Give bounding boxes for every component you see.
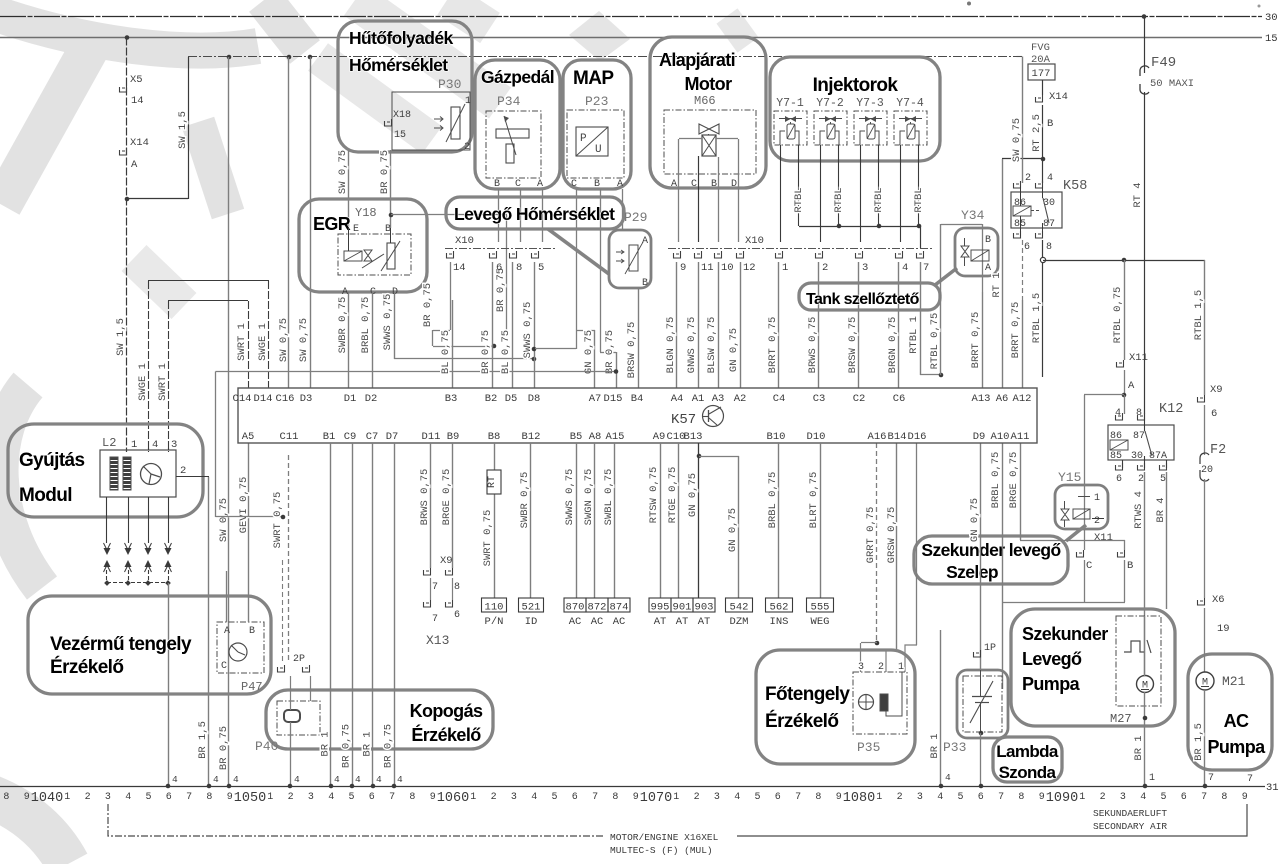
fuse F49 50 MAXI [1144,17,1146,74]
svg-text:5: 5 [957,792,963,803]
wire harness bracket right [737,804,1247,836]
wire M66 A [678,139,680,242]
svg-text:Hűtőfolyadék: Hűtőfolyadék [349,28,454,48]
svg-text:562: 562 [770,602,789,614]
svg-text:BR 0,75: BR 0,75 [604,330,616,374]
svg-text:GN 0,75: GN 0,75 [727,508,739,552]
svg-text:Tank szellőztető: Tank szellőztető [806,291,920,308]
svg-text:RT 1: RT 1 [991,272,1003,297]
svg-text:8: 8 [1221,792,1227,803]
svg-text:DZM: DZM [730,616,749,628]
svg-text:5: 5 [1160,792,1166,803]
svg-text:AC: AC [569,616,582,628]
EGR internal wires [348,228,350,251]
svg-text:995: 995 [651,602,670,614]
svg-text:4: 4 [902,262,908,274]
svg-text:3: 3 [917,792,923,803]
svg-text:RT: RT [487,476,498,488]
svg-text:SEKUNDAERLUFT: SEKUNDAERLUFT [1093,808,1167,819]
wire BLRT 0,75 D10 [820,443,822,598]
svg-text:D14: D14 [254,393,273,405]
svg-text:Főtengely: Főtengely [765,684,850,705]
svg-text:12: 12 [743,262,756,274]
connector X6 pin 19 [1198,598,1205,605]
wire M66 B [718,157,720,242]
svg-text:SWRT 0,75: SWRT 0,75 [272,492,284,549]
svg-text:RT 2,5: RT 2,5 [1031,114,1043,152]
connector X10 pin 10 [715,251,722,258]
wire below X11 [1084,560,1086,602]
wire D16 to P35 pin1 [916,443,918,645]
svg-text:GN 0,75: GN 0,75 [583,330,595,374]
svg-text:4: 4 [1140,792,1146,803]
svg-text:AC: AC [1224,711,1249,731]
junction [125,197,130,202]
node 870 AC [564,598,586,612]
wire BR bus [433,346,494,348]
camshaft sensor callout [28,596,271,694]
svg-text:Kopogás: Kopogás [410,701,483,721]
svg-text:Levegő Hőmérséklet: Levegő Hőmérséklet [454,204,615,224]
wire BR 0,75 to B2 [492,262,494,388]
wire SW 0,75 to D3 [310,57,312,388]
wire to Y15/X11 C [1084,394,1124,396]
svg-text:M66: M66 [694,94,716,108]
svg-text:SW 1,5: SW 1,5 [177,111,189,149]
svg-text:C11: C11 [280,431,299,443]
svg-text:AT: AT [654,616,667,628]
secondary air valve callout [914,536,1068,584]
svg-text:MULTEC-S (F) (MUL): MULTEC-S (F) (MUL) [610,845,713,856]
node RT box [487,470,501,494]
callout tail [1066,525,1086,541]
svg-text:B3: B3 [445,393,458,405]
AC pump callout [1188,654,1272,770]
wire M66 C [698,156,700,242]
svg-text:BRSW 0,75: BRSW 0,75 [847,317,859,374]
wire SW 0,75 to C16 [288,57,290,388]
wire Y15 pin2 stub [1092,518,1104,520]
svg-text:7: 7 [592,792,598,803]
svg-text:7: 7 [998,792,1004,803]
coolant temp sensor callout [338,21,472,152]
svg-text:A13: A13 [972,393,991,405]
wire from P34 C [520,189,522,242]
connector 1P [974,650,981,657]
node 110 P/N [482,598,507,612]
svg-text:11: 11 [701,262,714,274]
svg-text:2: 2 [464,142,470,153]
svg-text:1: 1 [876,792,882,803]
svg-text:SWBR 0,75: SWBR 0,75 [337,297,349,354]
motor crossed box [702,135,716,156]
wire into pump [1144,616,1146,676]
ignition module callout [8,424,203,517]
svg-text:C9: C9 [344,431,357,443]
svg-text:SW 0,75: SW 0,75 [298,318,310,362]
svg-text:5: 5 [754,792,760,803]
svg-text:2: 2 [897,792,903,803]
svg-text:C4: C4 [773,393,786,405]
svg-text:2: 2 [491,792,497,803]
svg-text:Y34: Y34 [961,208,985,223]
svg-text:EGR: EGR [313,214,351,234]
node 521 ID [519,598,544,612]
svg-text:A9: A9 [653,431,666,443]
svg-text:K58: K58 [1063,179,1087,194]
connector X10 pin 5 [532,251,539,258]
svg-text:P47: P47 [241,680,263,694]
svg-text:1050: 1050 [234,791,266,806]
svg-text:9: 9 [430,792,436,803]
svg-text:2: 2 [694,792,700,803]
connector X13 pins 7 6 [424,600,431,607]
pump motor [1137,676,1154,693]
svg-text:RTBL: RTBL [873,187,885,212]
svg-text:4: 4 [531,792,537,803]
svg-text:BR 0,75: BR 0,75 [422,283,434,327]
svg-text:RTBL 1,5: RTBL 1,5 [1031,293,1043,343]
svg-text:D7: D7 [386,431,399,443]
svg-text:1: 1 [1149,773,1155,784]
svg-text:Pumpa: Pumpa [1207,737,1266,757]
junction B13 [697,454,702,459]
svg-text:8: 8 [3,792,9,803]
svg-text:1: 1 [64,792,70,803]
svg-text:U: U [595,144,602,156]
svg-text:19: 19 [1217,623,1230,635]
throttle pedal callout [475,60,560,189]
svg-text:555: 555 [811,602,830,614]
svg-text:P/N: P/N [485,616,504,628]
svg-text:BL 0,75: BL 0,75 [500,330,512,374]
svg-text:B: B [249,626,255,637]
svg-text:SW 0,75: SW 0,75 [1011,118,1023,162]
svg-text:1: 1 [131,439,137,451]
svg-text:6: 6 [1116,474,1122,485]
svg-text:Lambda: Lambda [996,742,1059,761]
wire MAP A to P29 [622,189,624,231]
svg-text:D9: D9 [973,431,986,443]
svg-text:GNWS 0,75: GNWS 0,75 [686,317,698,374]
svg-text:RTGE 0,75: RTGE 0,75 [667,467,679,524]
svg-text:Modul: Modul [19,485,72,506]
svg-text:1: 1 [1079,792,1085,803]
svg-text:9: 9 [633,792,639,803]
svg-text:B14: B14 [888,431,907,443]
wire SWBR 0,75 to D1 [348,292,350,388]
svg-text:2: 2 [1025,173,1031,184]
junction on bus 15 [125,35,130,40]
svg-text:Érzékelő: Érzékelő [50,656,123,678]
svg-text:7: 7 [389,792,395,803]
lambda callout [993,737,1062,782]
wire lambda to ground [979,731,984,736]
pedal sensor P34 box [486,111,541,178]
svg-text:B10: B10 [767,431,786,443]
svg-text:A1: A1 [692,393,705,405]
node 995 AT [649,598,671,612]
wire to P47 A [226,571,228,622]
P/U symbol [576,127,608,156]
connector X10 pin 3 [856,251,863,258]
svg-text:Y15: Y15 [1058,470,1081,485]
svg-text:870: 870 [566,602,585,614]
wire BRBL 0,75 B10 [778,443,780,598]
wire SW 1,5 jog [127,198,188,200]
svg-text:9: 9 [680,262,686,274]
svg-text:15: 15 [1265,33,1278,45]
svg-text:5: 5 [145,792,151,803]
svg-text:15: 15 [394,130,406,141]
svg-text:B8: B8 [488,431,501,443]
svg-text:C7: C7 [366,431,379,443]
svg-text:P40: P40 [255,739,278,754]
svg-text:14: 14 [453,262,466,274]
wire BR 1 to ground [330,443,332,786]
ground dots left [166,784,171,789]
svg-text:SECONDARY AIR: SECONDARY AIR [1093,821,1167,832]
svg-text:50 MAXI: 50 MAXI [1150,78,1194,90]
svg-text:B: B [594,179,600,190]
distributor symbol [141,464,162,485]
wire BRBL 0,75 to D2 [372,292,374,388]
svg-text:1: 1 [898,662,904,673]
svg-text:1: 1 [1094,493,1100,504]
svg-text:Y18: Y18 [355,206,377,220]
svg-text:P29: P29 [624,210,647,225]
svg-text:SWWS 0,75: SWWS 0,75 [564,469,576,526]
svg-text:6: 6 [166,792,172,803]
svg-text:RTBL: RTBL [793,187,805,212]
svg-text:4: 4 [355,774,361,785]
svg-text:4: 4 [172,774,178,785]
connector X14 pin B [1042,80,1044,95]
svg-text:4: 4 [1047,173,1053,184]
svg-text:A: A [224,626,230,637]
svg-text:5: 5 [538,262,544,274]
svg-text:B: B [985,235,991,246]
svg-text:6: 6 [496,262,502,274]
svg-text:1: 1 [782,262,788,274]
ECU K57 box [238,388,1037,443]
svg-text:D11: D11 [422,431,441,443]
svg-text:X11: X11 [1129,352,1148,364]
wire BRSW 0,75 to C2 [858,262,860,388]
svg-text:1040: 1040 [31,791,63,806]
svg-text:85: 85 [1110,451,1122,462]
svg-text:4: 4 [233,774,239,785]
svg-text:8: 8 [815,792,821,803]
wire BRGE 0,75 [452,443,454,568]
junction on BR wire [389,213,394,218]
wire SWBL 0,75 A15 [614,443,616,598]
svg-text:5: 5 [551,792,557,803]
svg-text:B1: B1 [323,431,336,443]
svg-text:3: 3 [511,792,517,803]
svg-text:AC: AC [591,616,604,628]
svg-text:C: C [571,179,577,190]
wire to X6 [1204,479,1206,598]
svg-text:AC: AC [613,616,626,628]
connector X10 pin 2 [816,251,823,258]
svg-text:X14: X14 [1049,91,1068,103]
svg-text:87: 87 [1133,431,1145,442]
svg-text:Gyújtás: Gyújtás [19,450,85,471]
svg-text:BRWS 0,75: BRWS 0,75 [807,317,819,374]
wire BR 0,75 branch [391,214,507,216]
svg-text:7: 7 [1208,773,1214,784]
connector X10 pin 11 [695,251,702,258]
svg-text:A11: A11 [1011,431,1030,443]
wire BR 1,5 to ground [1204,690,1206,786]
relay K12 [1124,395,1126,414]
svg-text:3: 3 [308,792,314,803]
svg-text:4: 4 [294,774,300,785]
svg-text:X6: X6 [1212,594,1225,606]
svg-text:SWWS 0,75: SWWS 0,75 [382,294,394,351]
tank vent valve Y34 [982,224,984,292]
svg-text:2: 2 [822,262,828,274]
svg-text:BL 0,75: BL 0,75 [440,330,452,374]
svg-text:RTBL 1: RTBL 1 [908,316,920,354]
svg-text:1: 1 [465,96,471,107]
svg-text:A: A [131,159,138,171]
EGR valve Y18 box [338,234,411,275]
svg-text:4: 4 [125,792,131,803]
connector X18 pin 15 [385,119,392,126]
svg-text:L2: L2 [102,436,116,450]
svg-text:3: 3 [171,439,177,451]
svg-text:D2: D2 [365,393,378,405]
svg-text:SWRT 1: SWRT 1 [157,363,169,401]
svg-text:1P: 1P [984,643,996,654]
svg-text:BR 0,75: BR 0,75 [480,330,492,374]
wire BR 1 shield [940,630,942,786]
wire SWWS 0,75 to D8 [534,262,536,388]
svg-text:E: E [353,224,359,235]
wire supply rail y57 [188,56,1023,58]
svg-text:INS: INS [770,616,789,628]
node 555 WEG [807,598,834,612]
wire GN 0,75 to A2 [740,262,742,388]
pin 4 [148,448,150,450]
wire RTBL 0,75 Y34 B [941,224,982,226]
svg-text:BR 4: BR 4 [1155,497,1167,522]
svg-text:RT 4: RT 4 [1132,182,1144,207]
svg-text:A8: A8 [589,431,602,443]
svg-text:A10: A10 [991,431,1010,443]
svg-text:X9: X9 [1210,384,1223,396]
wire BRWS 0,75 to C3 [818,262,820,388]
wire BR 1 to ground [372,443,374,786]
wire BR 0,75 to ground [352,443,354,786]
svg-text:A: A [671,179,677,190]
svg-text:ID: ID [525,616,538,628]
svg-text:B: B [1047,118,1053,130]
EGR solenoid [344,251,362,261]
svg-text:7: 7 [795,792,801,803]
svg-text:8: 8 [1136,408,1142,419]
svg-text:4: 4 [945,772,951,783]
idle motor M66 box [664,110,756,174]
svg-text:BR 1,5: BR 1,5 [197,721,209,759]
svg-text:M21: M21 [1222,674,1246,689]
svg-text:C: C [221,661,227,672]
wire from P34 B [498,189,500,242]
wire BRSW 0,75 P29 B to B4 [638,288,640,388]
svg-text:D15: D15 [604,393,623,405]
svg-text:4: 4 [213,774,219,785]
svg-text:P: P [580,133,587,145]
svg-text:C3: C3 [813,393,826,405]
svg-text:A7: A7 [589,393,602,405]
svg-text:C14: C14 [233,393,252,405]
svg-text:K57: K57 [671,412,696,428]
svg-text:6: 6 [454,610,460,621]
svg-text:B2: B2 [485,393,498,405]
svg-text:20: 20 [1201,465,1213,476]
svg-text:87: 87 [1043,219,1055,230]
svg-text:GN 0,75: GN 0,75 [969,498,981,542]
MAP sensor callout [563,60,631,189]
wire RTBL 1 from pin 7 [920,262,922,375]
svg-text:4: 4 [152,439,158,451]
svg-text:10: 10 [721,262,734,274]
svg-text:1060: 1060 [437,791,469,806]
svg-text:8: 8 [454,582,460,593]
wire SW 0,75 from P30 [348,150,350,229]
fuse F2 [1204,405,1206,455]
svg-text:6: 6 [369,792,375,803]
wire GRRT 0,75 dashed [876,443,878,643]
svg-text:BRRT 0,75: BRRT 0,75 [970,312,982,369]
svg-text:Szonda: Szonda [999,763,1057,782]
svg-text:RTBL 0,75: RTBL 0,75 [929,313,941,370]
wire SWGN 0,75 A8 [594,443,596,598]
svg-text:Levegő: Levegő [1022,649,1082,669]
svg-text:X14: X14 [130,137,149,149]
svg-text:Hőmérséklet: Hőmérséklet [349,55,448,75]
svg-text:B4: B4 [631,393,644,405]
svg-text:BRRT 0,75: BRRT 0,75 [767,317,779,374]
svg-text:F2: F2 [1210,443,1226,458]
svg-text:B: B [642,278,648,289]
injectors callout [770,57,940,161]
svg-text:A: A [642,236,648,247]
svg-text:X11: X11 [1094,532,1113,544]
tank vent callout [799,283,940,310]
svg-text:B5: B5 [570,431,583,443]
wire SWGE 1 jog [148,281,150,452]
connector X10 right [668,248,932,250]
wire left edge down [215,372,217,518]
lambda sensor P33 [957,670,1008,738]
svg-text:8: 8 [612,792,618,803]
svg-text:P33: P33 [943,740,966,755]
svg-text:SWRT 1: SWRT 1 [236,323,248,361]
svg-text:A4: A4 [671,393,684,405]
svg-text:RTSW 0,75: RTSW 0,75 [648,467,660,524]
svg-text:30: 30 [1265,12,1278,24]
svg-text:BR 0,75: BR 0,75 [218,726,230,770]
wire bus 15 [0,37,1262,39]
wire GEVI 0,75 A5 to P47 B [248,443,250,622]
svg-text:Alapjárati: Alapjárati [659,50,735,70]
svg-text:4: 4 [376,774,382,785]
junction on bus 30 [1142,14,1147,19]
svg-text:1070: 1070 [640,791,672,806]
